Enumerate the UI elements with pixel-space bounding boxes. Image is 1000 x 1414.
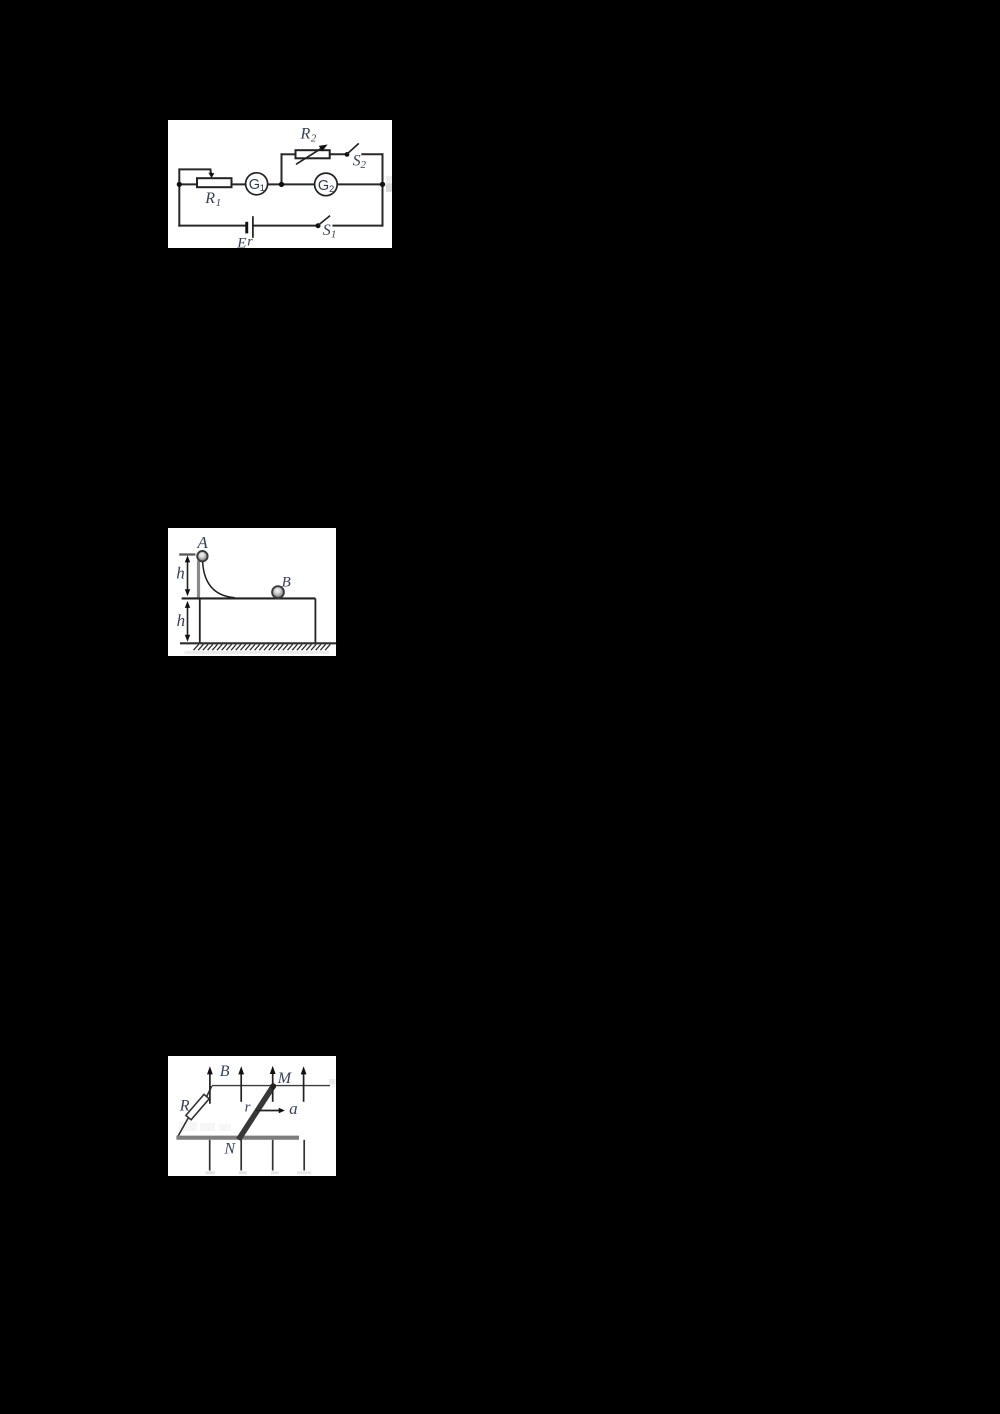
svg-text:G: G <box>318 178 329 194</box>
wire: bottom middle segment <box>253 225 318 227</box>
svg-text:r: r <box>245 1099 251 1115</box>
top reference tick <box>179 553 195 555</box>
left slant rail lower part <box>177 1118 188 1137</box>
svg-text:h: h <box>177 611 186 630</box>
B field arrow 2 <box>240 1073 242 1102</box>
svg-text:B: B <box>220 1063 230 1080</box>
node junction (left of branch) <box>279 182 284 187</box>
gray artifact square top right <box>330 1079 336 1085</box>
gray artifact rects at right edge <box>386 176 392 183</box>
svg-text:a: a <box>289 1099 298 1118</box>
switch S2 blade <box>348 143 359 153</box>
battery E r : short thick plate <box>245 222 248 234</box>
ball A <box>197 551 207 561</box>
platform left edge <box>199 598 201 642</box>
svg-text:2: 2 <box>311 133 317 145</box>
svg-text:1: 1 <box>260 183 265 194</box>
left slant rail upper part <box>207 1086 212 1097</box>
svg-text:R: R <box>179 1097 190 1114</box>
wire: left vertical <box>178 184 180 225</box>
R2 diagonal arrow shaft <box>296 148 323 165</box>
battery E r : long thin plate <box>252 216 254 238</box>
wire: branch vertical at node <box>281 154 283 184</box>
svg-text:G: G <box>249 177 260 193</box>
resistor R1 (rheostat box) <box>197 178 232 187</box>
field line below 2 <box>240 1140 242 1171</box>
wire: bottom right segment <box>333 225 382 227</box>
svg-text:M: M <box>277 1070 293 1087</box>
node junction (left end) <box>177 182 182 187</box>
B field arrow 1 <box>209 1073 211 1104</box>
light gray strip under hatching <box>185 651 330 654</box>
switch S1 blade <box>319 216 331 225</box>
gray artifact squares at line ends <box>206 1171 215 1174</box>
B field arrow 4 <box>303 1073 305 1102</box>
acceleration arrow a <box>256 1110 281 1112</box>
svg-text:N: N <box>223 1141 236 1158</box>
wire: bottom left segment <box>179 225 245 227</box>
gray wall bar <box>197 561 200 599</box>
R2 arrowhead <box>319 145 328 152</box>
field line below 3 <box>272 1140 274 1171</box>
field line below 4 <box>303 1140 305 1171</box>
node junction (right) <box>380 182 385 187</box>
platform top edge <box>182 597 316 599</box>
wire: main horizontal bus <box>179 183 382 185</box>
arrowhead of R1 wiper <box>208 173 214 178</box>
wire: R2 branch left <box>282 153 296 155</box>
wire: R1 wiper arm <box>179 169 211 184</box>
svg-text:2: 2 <box>361 159 367 171</box>
svg-text:h: h <box>176 564 185 583</box>
wire: right vertical <box>382 154 384 225</box>
svg-text:r: r <box>247 235 253 250</box>
wire: S2 to right vertical <box>362 153 382 155</box>
lower h dimension arrow <box>187 603 189 640</box>
switch S2 contact dot <box>345 152 350 157</box>
svg-text:E: E <box>236 235 246 251</box>
svg-text:S: S <box>323 222 331 239</box>
platform right edge <box>314 598 316 642</box>
upper h dimension arrow <box>187 558 189 594</box>
ball B <box>272 586 284 598</box>
svg-text:S: S <box>353 152 361 169</box>
galvanometer G2 <box>315 173 338 196</box>
svg-text:A: A <box>196 533 208 552</box>
galvanometer G1 <box>246 173 268 195</box>
top rail <box>212 1085 330 1087</box>
resistor R (slanted box) <box>186 1094 209 1119</box>
svg-text:1: 1 <box>331 229 337 241</box>
rod MN <box>239 1086 274 1139</box>
wire: R2 branch to S2 <box>330 153 347 155</box>
svg-text:2: 2 <box>329 184 334 195</box>
svg-text:R: R <box>300 126 311 143</box>
ground line <box>180 642 336 644</box>
svg-text:R: R <box>204 190 215 207</box>
B field arrow 3 <box>272 1073 274 1102</box>
rod top junction dot <box>270 1083 276 1089</box>
ground hatching <box>194 644 331 650</box>
bottom rail (thick gray) <box>176 1136 299 1140</box>
switch S1 contact dot <box>316 223 321 228</box>
resistor R2 (variable) <box>296 150 330 158</box>
curved slide <box>203 562 235 598</box>
field line below 1 <box>209 1140 211 1171</box>
faint ghost marks <box>179 1122 197 1131</box>
svg-text:1: 1 <box>216 197 222 209</box>
